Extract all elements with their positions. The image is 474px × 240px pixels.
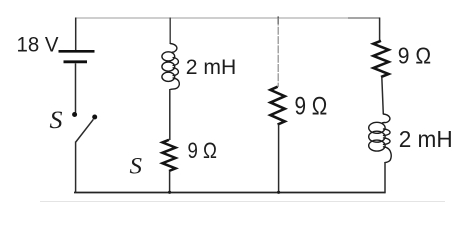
wire: battery V1 top lead [75, 18, 77, 51]
wire: battery V1 bottom lead [75, 63, 77, 112]
svg-text:9 Ω: 9 Ω [295, 92, 328, 120]
wire: branch-2 upper lead [169, 18, 171, 45]
inductor L2 (2 mH) coil [369, 114, 392, 163]
resistor R2 (9 ohm) zigzag [270, 87, 284, 125]
junction node: branch-2 / bottom rail [168, 191, 171, 194]
inductor L1 (2 mH) coil [162, 44, 179, 90]
wire: branch-2 lower lead [169, 171, 171, 193]
svg-text:S: S [130, 153, 143, 178]
switch S terminal node (right contact) [92, 115, 97, 120]
wire: right branch upper lead [379, 18, 381, 42]
svg-text:9 Ω: 9 Ω [188, 138, 218, 163]
svg-text:9 Ω: 9 Ω [398, 43, 431, 69]
wire: branch-2 middle lead [169, 89, 171, 140]
wire: right branch middle lead [382, 77, 384, 114]
wire: bottom rail [74, 192, 386, 194]
svg-text:2 mH: 2 mH [399, 126, 453, 152]
wire: top rail [76, 17, 380, 19]
battery V1 positive plate (long) [59, 50, 95, 53]
wire: middle branch upper lead [277, 18, 279, 88]
wire: middle branch lower lead [278, 124, 280, 193]
wire: top rail right segment [348, 17, 380, 19]
resistor R1 (9 ohm) zigzag [162, 140, 175, 171]
svg-text:2 mH: 2 mH [186, 56, 237, 79]
battery V1 negative plate (short) [64, 60, 88, 63]
wire: left branch lower lead [75, 142, 77, 194]
switch S terminal node (top contact) [72, 112, 77, 117]
svg-text:18 V: 18 V [17, 34, 59, 57]
resistor R3 (9 ohm) zigzag [373, 41, 388, 77]
wire: right branch lower lead [384, 162, 386, 193]
switch S blade (open) [76, 119, 94, 142]
junction node: middle branch / top rail [277, 17, 279, 25]
junction node: middle branch / bottom rail [277, 191, 280, 194]
svg-text:S: S [50, 107, 64, 134]
